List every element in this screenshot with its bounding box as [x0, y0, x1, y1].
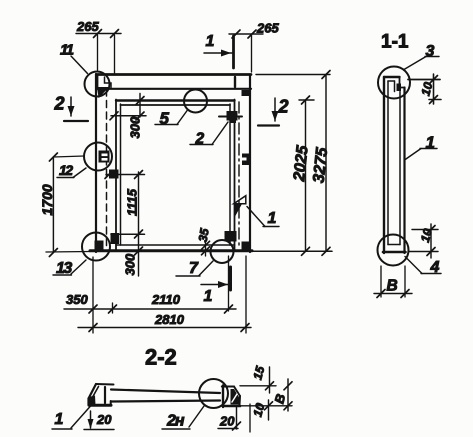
dimension 15 right (2-2) — [240, 367, 276, 393]
svg-text:2: 2 — [195, 131, 205, 148]
svg-text:13: 13 — [56, 260, 72, 277]
svg-text:20: 20 — [219, 414, 235, 429]
detail circle 7 — [211, 240, 234, 263]
left edge stile line — [95, 74, 97, 252]
dimension 300 upper with row line — [110, 94, 146, 121]
label 3 with leader — [404, 57, 439, 70]
top bar (head member) of frame plan — [97, 75, 251, 89]
bottom dimension row 350 / 2110 — [64, 303, 236, 313]
section marker 2 left — [64, 97, 88, 121]
dimension 10 bottom (1-1) — [409, 224, 438, 258]
inner frame top edge — [116, 101, 235, 106]
right edge stile line — [249, 75, 251, 253]
bottom right corner block — [242, 242, 249, 251]
label 1 (jamb) with leader — [405, 149, 438, 161]
svg-text:1700: 1700 — [39, 184, 55, 215]
svg-text:В: В — [387, 278, 398, 295]
svg-text:1: 1 — [206, 33, 215, 50]
dimension 35 bottom — [202, 241, 210, 256]
svg-text:5: 5 — [160, 109, 170, 128]
right axis line (dash-dot) — [238, 102, 240, 248]
dimension 10 right (2-2) — [240, 400, 292, 420]
fastener square on inner left (bottom) — [111, 234, 119, 244]
detail circle 13 — [82, 233, 110, 261]
svg-text:2-2: 2-2 — [145, 345, 177, 370]
left hidden edge (dashed) — [106, 89, 108, 248]
dimension 265 top right — [229, 30, 263, 72]
bottom edge line — [90, 249, 252, 252]
svg-text:2810: 2810 — [154, 312, 185, 327]
top bar right end notch — [235, 77, 250, 96]
section marker 2 right — [258, 98, 279, 126]
svg-text:1: 1 — [204, 288, 213, 305]
svg-text:1: 1 — [55, 411, 64, 428]
svg-text:12: 12 — [59, 162, 73, 178]
detail circle 4 — [378, 235, 409, 266]
svg-text:265: 265 — [256, 21, 279, 36]
leader and label 1 (plan item) — [247, 207, 279, 227]
label 11 with leader — [71, 56, 88, 74]
detail circle 11 — [85, 72, 110, 97]
svg-text:2: 2 — [54, 94, 65, 114]
svg-text:2н: 2н — [166, 413, 185, 430]
detail circle 2н — [199, 379, 228, 408]
svg-text:300: 300 — [128, 116, 143, 138]
label 1 with leader (2-2 left) — [52, 406, 91, 430]
left end block (2-2) — [89, 384, 114, 406]
fastener square at bottom right (circle 7 target) — [225, 232, 236, 242]
svg-text:265: 265 — [76, 19, 99, 34]
label 12 with leader — [57, 168, 86, 178]
svg-text:1115: 1115 — [125, 188, 140, 216]
svg-text:1: 1 — [426, 133, 435, 152]
fastener plate at top right corner (callout 2 target) — [219, 112, 242, 124]
fastener square on inner left (mid) — [110, 170, 119, 178]
dimension B right (2-2) — [284, 379, 292, 411]
svg-text:20: 20 — [96, 412, 112, 427]
section marker 1 top — [204, 36, 234, 68]
detail circle 5 — [184, 90, 207, 113]
fastener bracket on right edge — [242, 154, 251, 166]
dimension 1115 chain with row lines — [105, 171, 145, 277]
label 5 with leader — [155, 110, 188, 125]
svg-text:1-1: 1-1 — [381, 32, 409, 53]
detail circle 12 — [84, 143, 112, 171]
inner frame bottom sill — [116, 244, 235, 246]
dimension 10 top (1-1) — [408, 74, 441, 104]
dimension 265 top left — [76, 30, 121, 74]
label 13 with leader — [53, 260, 86, 275]
svg-text:300: 300 — [123, 253, 138, 275]
label 7 with leader — [176, 261, 213, 276]
svg-text:1: 1 — [268, 210, 277, 227]
svg-text:4: 4 — [430, 259, 440, 276]
top bar left end notch — [98, 77, 112, 97]
label 2н with leader — [162, 406, 204, 429]
dimension B bottom (1-1) — [374, 266, 412, 298]
bottom dimension row 2810 — [78, 324, 251, 332]
svg-text:2110: 2110 — [151, 292, 181, 307]
inner frame left edge — [116, 100, 121, 251]
jamb member vertical (1-1) — [383, 77, 406, 253]
svg-text:350: 350 — [66, 292, 88, 307]
right dimensions 2025 / 3275 — [252, 71, 332, 256]
staple glyph inside circle 12 — [99, 151, 110, 163]
detail circle 3 — [378, 67, 410, 99]
svg-text:35: 35 — [196, 227, 212, 243]
svg-text:7: 7 — [189, 260, 199, 277]
head member bar (2-2) — [111, 390, 220, 402]
dimension 20 left (2-2) — [84, 411, 114, 430]
label 2 with leader (fastener callout) — [190, 122, 228, 145]
right end block (2-2) — [222, 386, 240, 408]
staple glyph inside circle 13 — [95, 241, 103, 250]
marking triangle (item 1 pointer) — [234, 196, 246, 217]
section marker 1 bottom — [201, 267, 231, 290]
label 4 with leader — [405, 257, 441, 274]
bottom extension lines — [93, 256, 246, 333]
dimension 20 right (2-2) — [218, 404, 250, 432]
svg-text:3: 3 — [426, 43, 435, 60]
svg-text:2: 2 — [278, 97, 289, 117]
dimension 1700 left — [46, 153, 90, 257]
svg-text:11: 11 — [60, 42, 74, 59]
inner frame right edge — [230, 100, 235, 251]
